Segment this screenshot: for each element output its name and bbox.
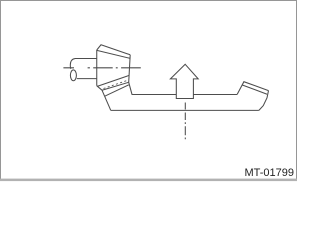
- svg-text:MT-01799: MT-01799: [244, 167, 294, 179]
